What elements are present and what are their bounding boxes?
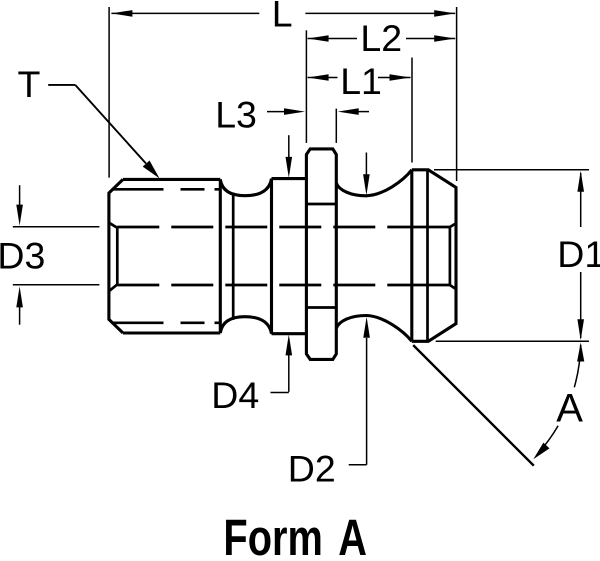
L dimension extension line right (456, 7, 458, 181)
D4 leader and label (271, 392, 289, 394)
svg-text:L: L (272, 0, 293, 34)
D2 leader and label (349, 464, 367, 466)
gripper groove bottom arc (336, 316, 412, 342)
svg-text:T: T (18, 63, 41, 105)
svg-text:L1: L1 (340, 60, 382, 102)
bore countersink left (109, 223, 117, 228)
pull stud thread section outline (109, 179, 123, 333)
collar section (270, 179, 273, 334)
svg-text:Form: Form (223, 509, 322, 561)
svg-text:D2: D2 (288, 447, 336, 489)
A angle arc (574, 345, 580, 388)
svg-text:D1: D1 (557, 233, 600, 275)
thread root hidden lines (112, 188, 221, 191)
D3 dimension arrows (19, 185, 21, 206)
D1 extension lines (434, 169, 589, 171)
L2 dimension line (308, 38, 357, 40)
thread relief neck top arc (220, 179, 271, 196)
D3 extension lines (13, 226, 100, 228)
flange face edge lines (306, 203, 336, 206)
bore end countersink right (449, 227, 452, 286)
flange outline (306, 149, 336, 360)
svg-text:D3: D3 (0, 235, 45, 277)
L3 dimension arrows (267, 111, 285, 113)
L1 extension line right (411, 58, 413, 163)
head chamfer edge line (426, 170, 429, 341)
thread relief neck bottom arc (220, 317, 271, 334)
head outline (410, 170, 413, 341)
svg-text:A: A (556, 386, 583, 430)
T leader line (48, 84, 75, 86)
L dimension extension line left (108, 7, 110, 178)
bore hidden lines (117, 226, 406, 229)
L3 extension line right (335, 109, 337, 143)
thread runout line (232, 193, 235, 320)
D1 dimension line (580, 173, 582, 227)
L dimension line (111, 12, 259, 14)
A angle line (413, 345, 534, 466)
bore lines in head (406, 226, 450, 229)
svg-text:A: A (338, 509, 367, 561)
L2 extension line left (305, 30, 307, 143)
L1 dimension line (308, 77, 338, 79)
svg-text:L3: L3 (215, 93, 257, 135)
svg-text:D4: D4 (211, 374, 259, 416)
D2 dimension arrows (365, 153, 367, 176)
svg-text:L2: L2 (360, 17, 402, 59)
gripper groove top arc (336, 170, 412, 196)
D4 dimension arrows (288, 135, 290, 158)
